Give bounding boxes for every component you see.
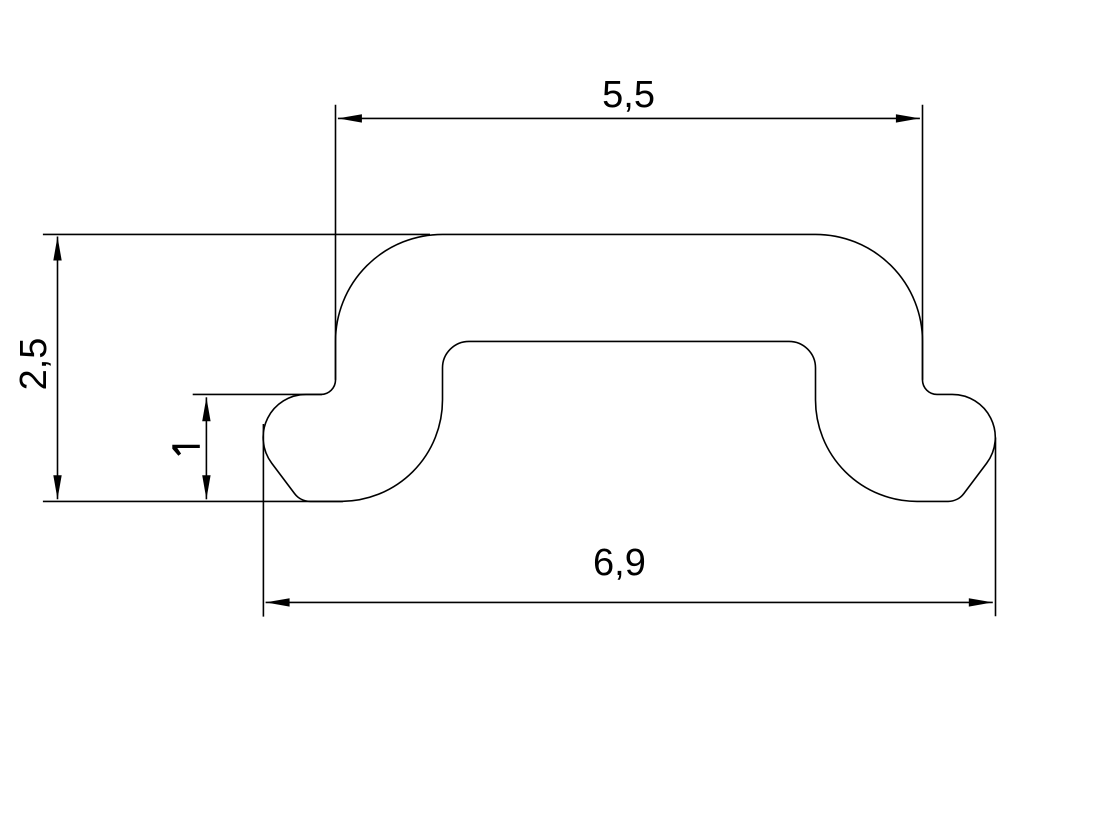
dimension 2,5 bottom arrowhead [53, 475, 61, 499]
dimension 5,5 left arrowhead [338, 114, 362, 122]
profile outline of extrusion cross-section [263, 234, 995, 501]
dimension 5,5 right extension line [922, 105, 924, 380]
dimension 1 top arrowhead [202, 397, 210, 421]
svg-text:6,9: 6,9 [593, 542, 646, 584]
dimension 1 bottom arrowhead [202, 475, 210, 499]
dimension 2,5 top arrowhead [53, 237, 61, 261]
dimension 1 dimension line [205, 397, 207, 499]
dimension 5,5 left extension line [335, 105, 337, 380]
dimension 6,9 left arrowhead [266, 598, 290, 606]
dimension 2,5 top extension line [43, 233, 430, 235]
dimension 1 text label (rotated, custom glyph) [172, 445, 200, 456]
svg-text:2,5: 2,5 [13, 338, 55, 391]
svg-text:5,5: 5,5 [602, 74, 655, 116]
dimension 6,9 left extension line [262, 424, 264, 617]
dimension 5,5 right arrowhead [896, 114, 920, 122]
dimension 2,5 bottom extension line [43, 500, 343, 502]
dimension 6,9 right arrowhead [969, 598, 993, 606]
dimension 2,5 dimension line [57, 237, 59, 500]
dimension 5,5 dimension line [338, 117, 920, 119]
dimension 6,9 dimension line [266, 601, 993, 603]
dimension 1 extension line [193, 393, 322, 395]
dimension 6,9 right extension line [995, 438, 997, 617]
